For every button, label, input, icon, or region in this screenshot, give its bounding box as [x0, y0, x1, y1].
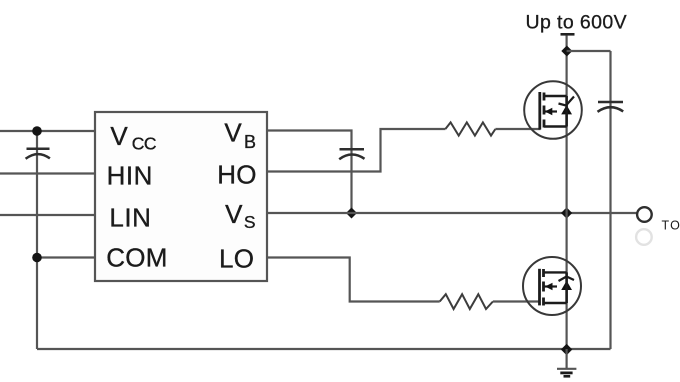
node bootstrap to VS junction	[346, 208, 357, 219]
ground	[557, 349, 576, 376]
transistor Q2	[523, 257, 581, 315]
capacitor C3	[598, 102, 624, 112]
svg-text:LIN: LIN	[109, 203, 151, 233]
capacitor C2 bootstrap	[339, 149, 364, 159]
wire VCC input	[0, 130, 95, 132]
node COM junction	[32, 253, 42, 263]
node HV branch	[561, 46, 572, 57]
node VCC junction	[32, 126, 42, 136]
wire LIN input	[0, 214, 95, 216]
transistor Q1	[524, 81, 582, 139]
svg-text:COM: COM	[106, 243, 168, 273]
svg-text:LO: LO	[219, 244, 254, 274]
wire C3 branch vertical	[609, 51, 611, 349]
resistor R1	[445, 122, 495, 135]
svg-text:HIN: HIN	[107, 161, 153, 191]
ghost circle artifact	[636, 229, 652, 245]
svg-text:Up to 600V: Up to 600V	[526, 11, 628, 33]
IC U1 box	[95, 112, 267, 281]
node ground junction	[561, 344, 572, 355]
svg-text:TO: TO	[662, 219, 680, 233]
wire HV branch to C3	[567, 50, 611, 52]
resistor R2	[440, 294, 493, 309]
output terminal	[637, 207, 652, 222]
wire VS output	[267, 212, 637, 214]
wire left vertical bus	[36, 131, 38, 349]
wire COM	[37, 256, 95, 258]
wire LO to gate resistor	[267, 258, 440, 302]
wire HO to gate resistor	[267, 129, 445, 172]
supply terminal bar	[561, 33, 575, 36]
svg-text:HO: HO	[217, 160, 257, 190]
node half-bridge midpoint	[561, 207, 572, 218]
wire bottom return	[37, 348, 611, 350]
wire VB to bootstrap cap	[267, 131, 352, 214]
capacitor C1	[26, 149, 50, 159]
wire R1 to Q1 gate	[495, 128, 540, 130]
wire HIN input	[0, 172, 95, 174]
wire HV bus vertical	[565, 36, 567, 350]
wire R2 to Q2 gate	[493, 300, 540, 302]
